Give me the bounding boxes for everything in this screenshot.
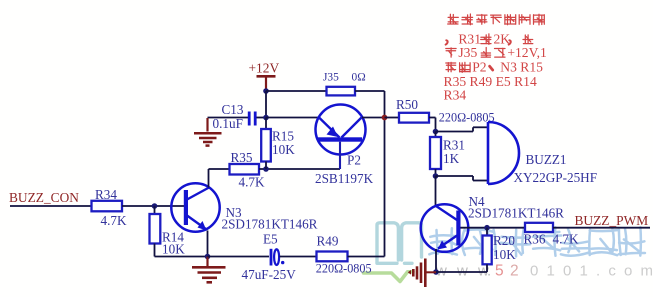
svg-text:BUZZ_PWM: BUZZ_PWM <box>575 213 649 228</box>
svg-text:R36: R36 <box>524 231 546 246</box>
wire node E to R31 <box>435 132 437 138</box>
svg-text:E5: E5 <box>263 232 278 247</box>
svg-text:BUZZ_CON: BUZZ_CON <box>9 190 79 205</box>
wire P2 collector to node D <box>362 117 385 119</box>
wire N4 base to R36 <box>461 227 526 229</box>
resistor R34 <box>92 201 123 212</box>
node D junction (collector/J35/R50/loop) <box>382 115 388 121</box>
svg-text:P2: P2 <box>472 60 487 75</box>
wire ground rail to R20 <box>436 271 487 273</box>
capacitor C13 <box>248 112 251 126</box>
wire R20 to ground rail <box>486 264 488 272</box>
node C junction (C13/+12V/R15/emitter) <box>263 115 269 121</box>
svg-text:1K: 1K <box>443 151 460 166</box>
resistor R49 <box>317 252 348 262</box>
transistor N3 <box>171 183 219 231</box>
svg-text:+12V: +12V <box>249 61 280 76</box>
wire R50 to corner <box>429 117 436 119</box>
wire +12V down to C13 node <box>265 91 267 118</box>
svg-text:5: 5 <box>495 263 504 280</box>
wire node A to R14 <box>154 206 156 214</box>
watermark <box>364 223 653 282</box>
wire loop vertical <box>384 118 386 257</box>
svg-text:10K: 10K <box>272 142 295 157</box>
svg-text:220Ω-0805: 220Ω-0805 <box>439 111 495 125</box>
transistor N4 <box>421 204 469 252</box>
wire node C to P2 emitter <box>266 117 319 119</box>
ground (N4 emitter) <box>425 271 436 273</box>
node B junction <box>263 166 269 172</box>
svg-text:R20: R20 <box>493 233 515 248</box>
resistor R31 <box>430 137 441 169</box>
svg-text:2SB1197K: 2SB1197K <box>315 171 374 186</box>
buzzer BUZZ1 <box>488 122 519 184</box>
wire N3 collector up <box>208 169 210 188</box>
wire BUZZ_CON to R34 <box>10 205 92 207</box>
wire R49 to loop corner <box>348 256 385 258</box>
wire node D to R50 <box>385 117 400 119</box>
svg-text:220Ω-0805: 220Ω-0805 <box>316 262 372 276</box>
resistor R36 <box>525 223 553 232</box>
svg-text:R50: R50 <box>396 97 418 112</box>
svg-text:R49: R49 <box>317 234 339 249</box>
ground (N3 emitter) <box>206 257 208 267</box>
svg-text:XY22GP-25HF: XY22GP-25HF <box>514 170 598 185</box>
wire N4 emitter down <box>435 249 437 272</box>
svg-text:2SD1781KT146R: 2SD1781KT146R <box>468 206 564 221</box>
svg-text:0 1 0 1 . c o m: 0 1 0 1 . c o m <box>530 263 653 280</box>
wire node C to R15 <box>265 118 267 130</box>
wire rail to J35 <box>266 90 327 92</box>
resistor R35 <box>230 164 260 175</box>
resistor R20 <box>483 236 492 265</box>
node G junction (base/R20) <box>484 225 490 231</box>
wire node F to N4 collector <box>435 176 437 206</box>
wire ground to C13 <box>208 117 249 119</box>
node F junction (R31 bottom) <box>433 173 439 179</box>
node +12V rail junction <box>263 88 269 94</box>
wire emitter to E5 <box>208 256 270 258</box>
svg-text:10K: 10K <box>493 247 516 262</box>
annotation note (red) <box>444 14 547 103</box>
wire node E to buzzer pin1 <box>436 131 474 133</box>
svg-text:N3 R15: N3 R15 <box>500 60 543 75</box>
svg-text:R34: R34 <box>444 88 467 103</box>
node N3 emitter junction <box>205 254 211 260</box>
svg-text:2: 2 <box>510 263 519 280</box>
wire R35 to node B <box>259 168 340 170</box>
wire C13 to node C <box>257 117 267 119</box>
wire R31 to node F <box>435 169 437 176</box>
svg-text:J35: J35 <box>458 45 477 60</box>
wire R36 to BUZZ_PWM <box>553 227 650 229</box>
svg-text:47uF-25V: 47uF-25V <box>242 267 297 282</box>
svg-text:0.1uF: 0.1uF <box>213 116 243 131</box>
svg-text:R34: R34 <box>95 187 117 202</box>
wire E5 to R49 <box>280 256 317 258</box>
svg-text:2SD1781KT146R: 2SD1781KT146R <box>222 217 318 232</box>
capacitor E5 (electrolytic) <box>270 249 273 266</box>
wire N3 collector to R35 <box>209 168 230 170</box>
wire node G to R20 <box>486 228 488 236</box>
svg-text:J35: J35 <box>323 72 339 84</box>
svg-text:10K: 10K <box>162 242 185 257</box>
svg-text:4.7K: 4.7K <box>553 231 579 246</box>
resistor R50 <box>399 113 429 123</box>
jumper J35 <box>327 87 356 96</box>
transistor P2 <box>316 105 366 155</box>
wire R14 to ground rail <box>154 244 156 257</box>
svg-text:R35: R35 <box>231 150 253 165</box>
node E junction (R31 top) <box>433 129 439 135</box>
resistor R15 <box>261 129 271 162</box>
ground (C13) <box>206 118 208 132</box>
wire N3 emitter down <box>207 231 209 257</box>
svg-text:0Ω: 0Ω <box>352 72 366 84</box>
svg-text:P2: P2 <box>347 153 361 168</box>
wire J35 to corner <box>355 90 385 92</box>
node H junction (emitter/ground) <box>433 269 439 275</box>
wire node F to buzzer pin2 <box>436 175 474 177</box>
svg-text:4.7K: 4.7K <box>101 213 127 228</box>
wire R15 to node B <box>265 162 267 170</box>
svg-text:4.7K: 4.7K <box>239 175 265 190</box>
node A junction <box>152 203 158 209</box>
wire P2 base down <box>339 142 341 169</box>
svg-text:+12V,1: +12V,1 <box>507 45 547 60</box>
svg-text:C13: C13 <box>222 102 244 117</box>
wire R34 to node A <box>122 205 184 207</box>
svg-text:BUZZ1: BUZZ1 <box>526 152 567 167</box>
resistor R14 <box>150 214 161 244</box>
